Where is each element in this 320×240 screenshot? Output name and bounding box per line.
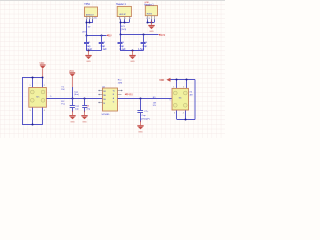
pins under U1 [87,17,93,20]
wire 3V3 rail [120,34,158,36]
svg-text:SP3485: SP3485 [102,114,111,116]
component X2 box [172,88,189,110]
svg-text:VDD: VDD [159,79,164,82]
svg-text:1: 1 [87,18,88,20]
wire 5V rail [87,35,107,37]
junction dots xtal wire [72,98,74,100]
svg-text:C7+: C7+ [144,111,149,113]
crystal right pin [46,98,102,100]
svg-text:Sm: Sm [36,96,39,98]
net port 3V3 (red) [159,33,166,37]
svg-text:2: 2 [125,18,126,20]
svg-text:Header 1: Header 1 [116,3,127,6]
svg-text:4: 4 [183,113,184,115]
capacitor C1 0.1uF [84,35,89,51]
component U2 box [103,88,118,111]
svg-text:3: 3 [174,113,175,115]
svg-text:P-RX: P-RX [127,92,133,96]
ground under C6 [81,111,87,124]
svg-text:AMS1117: AMS1117 [86,13,94,16]
ground under C5 [69,111,75,124]
svg-text:1M: 1M [61,89,64,91]
svg-text:(3V3): (3V3) [121,29,127,31]
capacitor C2 1uF [99,35,104,51]
ground under C1/C2 [85,51,91,64]
svg-text:1uF: 1uF [103,48,108,51]
net port 5V (red, right of wire) [107,33,112,37]
capacitor C6 22pF [82,98,87,112]
wire cap bottoms tie [120,50,143,52]
svg-text:3V3: 3V3 [161,33,166,37]
svg-text:(Sm): (Sm) [74,94,79,96]
ground under C3/C4 [129,51,135,64]
svg-text:24M: 24M [118,82,122,84]
svg-text:3: 3 [30,110,31,112]
component U1 regulator box [85,7,98,17]
svg-text:HDR-3P: HDR-3P [119,14,126,16]
top window edge line [0,0,225,1]
component P2 header box [145,6,157,16]
svg-text:Sm: Sm [179,97,182,99]
wire VDD to X2 [171,80,196,120]
power flag VDD [39,63,45,77]
capacitor C3 0.1uF [118,35,123,51]
svg-text:4M: 4M [189,94,192,96]
svg-text:(5V): (5V) [82,31,86,33]
svg-text:1: 1 [120,18,121,20]
background grid [0,0,225,138]
capacitor C5 22pF [70,98,75,112]
svg-text:5%: 5% [153,105,156,107]
pin names U2 right [113,90,115,103]
svg-text:2: 2 [90,18,91,20]
wire IC3 pins down [148,19,155,22]
wire IC2 pins down [120,19,130,35]
svg-text:5: 5 [50,96,51,98]
svg-text:(4700pF): (4700pF) [141,118,150,120]
pins under P1 [120,17,130,20]
svg-text:HDR3: HDR3 [147,13,152,15]
component P1 header box [117,6,131,16]
pins under P2 [148,16,155,20]
svg-text:2: 2 [44,85,45,87]
svg-text:1: 1 [30,85,31,87]
power flag VDD xtal wire [69,71,75,87]
svg-text:5V: 5V [109,33,112,37]
svg-text:1M: 1M [153,102,156,104]
wire cap bottoms tie [87,50,102,52]
capacitor C4 1uF [141,35,146,51]
wire U2 to X2 [118,98,173,100]
ground under C7 [137,121,143,134]
ground under P2 [148,21,154,34]
svg-text:3: 3 [130,18,131,20]
svg-text:4: 4 [44,110,45,112]
capacitor C7 [137,99,143,123]
wire IC1 pins down [87,19,93,35]
left pins U2 [99,91,102,103]
wire crystal top rail [22,78,43,125]
svg-text:TP54: TP54 [84,4,90,6]
svg-text:Vc: Vc [113,90,115,92]
svg-text:Header 1: Header 1 [144,3,154,6]
component X1 crystal box [29,88,47,108]
net port P-RX red [125,92,133,96]
pin names U2 left [103,91,106,105]
junction dots under U1 [86,22,88,24]
svg-text:5: 5 [170,100,171,102]
power flag VDD right [159,78,170,82]
right pins U2 [118,91,122,95]
svg-text:1 2 3: 1 2 3 [146,18,150,20]
